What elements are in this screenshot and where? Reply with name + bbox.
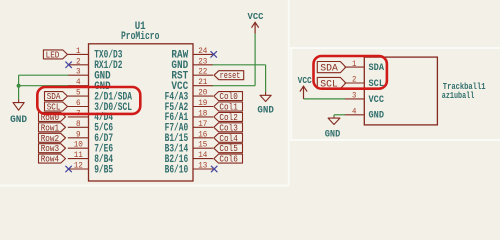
svg-text:Row2: Row2 bbox=[41, 134, 59, 144]
net label Col2 bbox=[214, 112, 243, 123]
svg-text:1: 1 bbox=[76, 46, 81, 56]
svg-text:5: 5 bbox=[76, 88, 81, 98]
U1 pin 7 4/D4 bbox=[68, 108, 114, 124]
svg-text:LED: LED bbox=[46, 50, 60, 60]
IC Trackball1 az1uball body bbox=[364, 57, 486, 125]
wire GND pin 23 horizontal bbox=[213, 64, 266, 66]
net label SDA (trackball) bbox=[317, 62, 346, 75]
junction GND node bbox=[17, 84, 21, 88]
highlight box U1 SDA/SCL bbox=[37, 87, 140, 114]
wire GND vertical bbox=[18, 75, 20, 99]
svg-text:16: 16 bbox=[198, 129, 207, 139]
U1 pin 13 B6/10 bbox=[165, 161, 213, 177]
svg-text:Col1: Col1 bbox=[219, 103, 237, 113]
net label SCL (trackball) bbox=[317, 77, 346, 90]
U1 pin 6 3/D0/SCL bbox=[68, 98, 132, 114]
svg-text:SDA: SDA bbox=[320, 63, 338, 75]
wire GND pin 3 bbox=[19, 74, 69, 76]
svg-text:reset: reset bbox=[220, 71, 241, 81]
Trackball1 pin 4 GND bbox=[345, 107, 385, 121]
U1 pin 21 VCC bbox=[171, 77, 213, 93]
wire GND pin 4 bbox=[19, 85, 69, 87]
net label SDA bbox=[45, 92, 68, 103]
svg-text:Row4: Row4 bbox=[41, 155, 59, 165]
net label Row4 bbox=[39, 154, 66, 165]
IC U1 ProMicro body bbox=[89, 21, 194, 181]
no-connect pin 12 bbox=[65, 166, 71, 172]
svg-text:Col5: Col5 bbox=[219, 144, 237, 154]
svg-text:GND: GND bbox=[257, 104, 274, 116]
svg-text:12: 12 bbox=[74, 161, 83, 171]
wire VCC vertical bbox=[254, 34, 256, 86]
svg-text:Col6: Col6 bbox=[219, 155, 237, 165]
svg-text:14: 14 bbox=[198, 150, 207, 160]
U1 pin 23 GND bbox=[171, 56, 213, 72]
U1 pin 24 RAW bbox=[171, 46, 213, 62]
svg-text:21: 21 bbox=[198, 77, 207, 87]
net label Row2 bbox=[39, 133, 66, 144]
U1 pin 19 F5/A2 bbox=[165, 98, 213, 114]
svg-text:3: 3 bbox=[76, 67, 81, 77]
Trackball1 pin 2 SCL bbox=[345, 75, 385, 89]
svg-text:Col3: Col3 bbox=[219, 123, 237, 133]
svg-text:ProMicro: ProMicro bbox=[121, 31, 159, 43]
ground (trackball) bbox=[325, 117, 341, 141]
wire GND pin 4 vertical bbox=[333, 115, 335, 117]
svg-text:az1uball: az1uball bbox=[442, 91, 475, 101]
no-connect pin 13 bbox=[211, 166, 217, 172]
U1 pin 5 2/D1/SDA bbox=[68, 88, 133, 104]
no-connect pin 24 bbox=[211, 51, 217, 57]
U1 pin 4 GND bbox=[68, 77, 111, 93]
svg-text:17: 17 bbox=[198, 119, 207, 129]
U1 pin 2 RX1/D2 bbox=[68, 56, 123, 72]
net label Row1 bbox=[39, 123, 66, 134]
svg-text:VCC: VCC bbox=[248, 11, 264, 22]
Trackball1 pin 1 SDA bbox=[345, 59, 385, 73]
svg-text:Row3: Row3 bbox=[41, 144, 59, 154]
svg-text:20: 20 bbox=[198, 88, 207, 98]
wire GND pin 23 vertical bbox=[265, 65, 267, 92]
svg-text:19: 19 bbox=[198, 98, 207, 108]
U1 pin 17 F7/A0 bbox=[165, 119, 213, 135]
net label Col6 bbox=[214, 154, 243, 165]
svg-text:2: 2 bbox=[352, 75, 356, 85]
svg-text:B6/10: B6/10 bbox=[165, 164, 189, 176]
Trackball1 pin 3 VCC bbox=[345, 91, 385, 105]
svg-text:1: 1 bbox=[352, 59, 356, 69]
wire GND pin 4 horizontal bbox=[334, 114, 345, 116]
svg-text:10: 10 bbox=[74, 140, 83, 150]
U1 pin 9 6/D7 bbox=[68, 129, 113, 145]
net label Col5 bbox=[214, 144, 243, 155]
svg-text:VCC: VCC bbox=[298, 75, 312, 86]
no-connect pin 2 bbox=[65, 62, 71, 68]
svg-text:GND: GND bbox=[10, 114, 27, 126]
svg-text:9: 9 bbox=[76, 129, 81, 139]
VCC power symbol (top) bbox=[248, 11, 264, 33]
U1 pin 10 7/E6 bbox=[68, 140, 113, 156]
svg-text:23: 23 bbox=[198, 56, 207, 66]
U1 pin 16 B1/15 bbox=[165, 129, 213, 145]
net label Col0 bbox=[214, 92, 243, 103]
svg-text:Col0: Col0 bbox=[219, 92, 237, 102]
svg-text:SDA: SDA bbox=[47, 92, 61, 102]
U1 pin 8 5/C6 bbox=[68, 119, 113, 135]
svg-text:15: 15 bbox=[198, 140, 207, 150]
svg-text:8: 8 bbox=[76, 119, 81, 129]
U1 pin 15 B3/14 bbox=[165, 140, 213, 156]
ground (right of U1) bbox=[257, 92, 274, 116]
net label reset bbox=[214, 71, 244, 82]
svg-text:3: 3 bbox=[352, 91, 356, 101]
U1 pin 1 TX0/D3 bbox=[68, 46, 123, 62]
svg-text:22: 22 bbox=[198, 67, 207, 77]
net label LED bbox=[43, 50, 67, 61]
U1 pin 18 F6/A1 bbox=[165, 108, 213, 124]
U1 pin 12 9/B5 bbox=[68, 161, 113, 177]
svg-text:GND: GND bbox=[369, 110, 385, 121]
ground (left) bbox=[10, 100, 27, 127]
svg-text:18: 18 bbox=[198, 108, 207, 118]
svg-text:GND: GND bbox=[325, 129, 341, 140]
svg-text:SDA: SDA bbox=[369, 62, 385, 73]
U1 pin 20 F4/A3 bbox=[165, 88, 213, 104]
svg-text:2: 2 bbox=[76, 56, 81, 66]
U1 pin 22 RST bbox=[171, 67, 213, 83]
net label Row3 bbox=[39, 144, 66, 155]
U1 pin 3 GND bbox=[68, 67, 111, 83]
wire VCC pin 21 horizontal bbox=[213, 85, 256, 87]
highlight box Trackball SDA/SCL bbox=[314, 56, 387, 89]
net label Row0 bbox=[39, 112, 66, 123]
svg-text:SCL: SCL bbox=[47, 103, 61, 113]
svg-text:24: 24 bbox=[198, 46, 207, 56]
U1 pin 11 8/B4 bbox=[68, 150, 114, 166]
svg-text:9/B5: 9/B5 bbox=[94, 164, 113, 176]
wire VCC pin 3 bbox=[304, 98, 346, 100]
svg-text:Col2: Col2 bbox=[219, 113, 237, 123]
net label Col4 bbox=[214, 133, 243, 144]
U1 pin 14 B2/16 bbox=[165, 150, 213, 166]
svg-text:11: 11 bbox=[74, 150, 83, 160]
svg-text:4: 4 bbox=[352, 107, 356, 117]
svg-text:Trackball1: Trackball1 bbox=[443, 81, 486, 92]
svg-text:VCC: VCC bbox=[369, 94, 385, 105]
svg-text:13: 13 bbox=[198, 161, 207, 171]
svg-text:6: 6 bbox=[76, 98, 81, 108]
svg-text:Col4: Col4 bbox=[219, 134, 237, 144]
net label Col1 bbox=[214, 102, 243, 113]
net label SCL bbox=[45, 102, 68, 113]
VCC power symbol (trackball) bbox=[298, 75, 312, 99]
net label Col3 bbox=[214, 123, 243, 134]
svg-text:Row1: Row1 bbox=[41, 123, 59, 133]
